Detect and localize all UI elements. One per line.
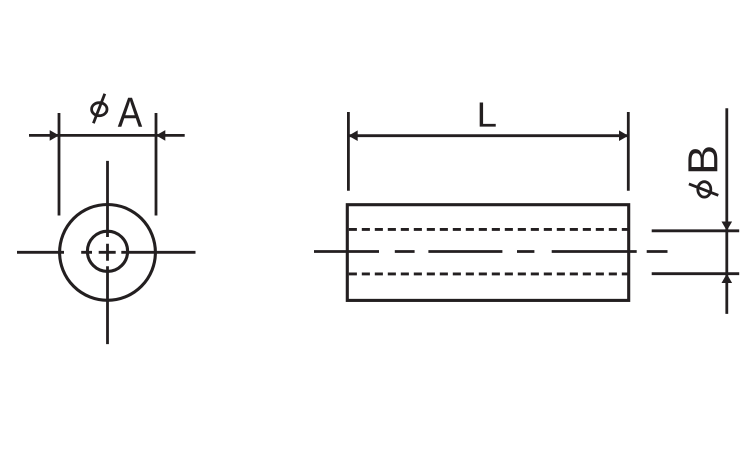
L arrowhead right (points right) [619,130,628,141]
L dimension line [348,134,628,137]
horizontal centerline (front view) [17,251,196,254]
label phi symbol of phiB (rotated) [689,182,718,197]
vertical centerline (front view) [106,161,109,344]
label phi symbol of phiA [92,94,107,123]
phiA arrowhead right (points left at extension line) [156,130,165,141]
L extension line right [627,112,630,191]
L extension line left [347,112,350,191]
phiB extension line bottom [652,272,740,275]
hidden line bottom (hole) [349,272,629,275]
hidden line top (hole) [349,228,629,231]
phiB extension line top [652,229,740,232]
L arrowhead left (points left) [348,130,357,141]
phiB dimension line [725,108,728,314]
phiB arrowhead bottom (points up at extension line) [722,274,733,283]
phiA extension line left [58,113,61,216]
label B text (rotated) [688,147,717,171]
phiA dimension line [29,134,185,137]
horizontal centerline (side view) [314,250,668,253]
side view rectangle [347,205,628,301]
outer circle (front view of spacer) [60,205,156,301]
label A text [118,98,142,127]
phiA arrowhead left (points right at extension line) [50,130,59,141]
phiA extension line right [155,113,158,216]
phiB arrowhead top (points down at extension line) [722,222,733,231]
label L text [480,103,496,127]
inner hole circle [87,231,127,271]
